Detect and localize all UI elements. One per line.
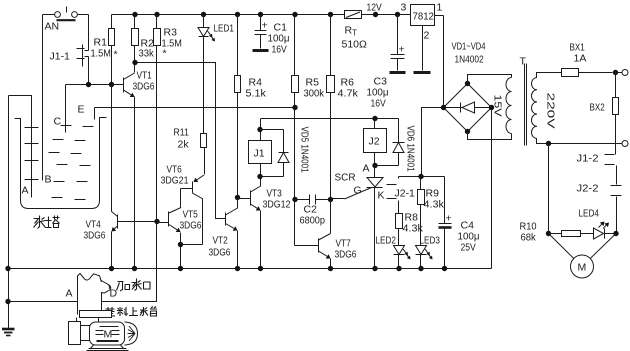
wire electrode A to pump pipe	[9, 288, 78, 302]
pump flange	[77, 311, 112, 323]
wire C-electrode net (y=84)	[66, 82, 124, 87]
electrode E	[78, 104, 95, 120]
fuse BX1 1A	[562, 42, 613, 77]
svg-text:12V: 12V	[367, 2, 382, 14]
svg-text:3DG6: 3DG6	[180, 220, 202, 232]
svg-text:16V: 16V	[272, 44, 287, 56]
node E-wire / R5	[292, 105, 297, 110]
secondary winding 15V	[468, 75, 512, 140]
diode VD5 1N4001 (flyback for J1)	[261, 127, 311, 177]
svg-text:*: *	[114, 49, 118, 61]
svg-text:LED4: LED4	[579, 208, 600, 220]
wire relay supply (y=118)	[261, 118, 399, 120]
svg-text:VT2: VT2	[213, 235, 228, 247]
resistor R9 4.3k	[418, 177, 445, 211]
fuse BX2	[590, 73, 619, 155]
svg-text:J1: J1	[254, 148, 265, 160]
resistor R6 4.7k	[327, 12, 359, 233]
svg-text:7812: 7812	[413, 11, 435, 23]
svg-text:M: M	[578, 262, 587, 274]
svg-text:3DG21: 3DG21	[161, 175, 189, 187]
svg-text:2k: 2k	[178, 139, 190, 151]
LED LED1	[198, 12, 234, 134]
capacitor C3 100u 16V	[367, 12, 406, 110]
wire E-electrode net (y=107)	[95, 107, 295, 109]
relay coil J2	[364, 116, 387, 166]
svg-text:3: 3	[401, 2, 407, 14]
LED LED2	[376, 229, 411, 269]
resistor RT 510ohm (in rail)	[342, 11, 368, 51]
resistor R10 68k	[520, 221, 581, 244]
relay contact J1-1	[50, 15, 89, 85]
svg-text:G: G	[354, 185, 362, 197]
svg-text:3DG12: 3DG12	[263, 199, 291, 211]
svg-text:3DG6: 3DG6	[335, 249, 357, 261]
resistor R1 1.5M	[91, 15, 118, 85]
LED LED3	[416, 205, 441, 269]
label jiashuikou (filling port)	[117, 279, 151, 292]
svg-text:LED1: LED1	[214, 23, 235, 35]
svg-text:B: B	[45, 174, 52, 186]
node A (SCR anode)	[363, 163, 378, 175]
svg-text:15V: 15V	[492, 95, 504, 117]
svg-text:4.3k: 4.3k	[424, 199, 445, 211]
label suliao shangshuiguan (plastic pipe)	[105, 307, 157, 317]
transistor VT4 3DG6	[84, 85, 157, 269]
wire +12V top rail	[112, 14, 345, 16]
svg-text:K: K	[378, 190, 385, 202]
relay coil J1	[249, 119, 272, 180]
svg-text:16V: 16V	[371, 98, 386, 110]
svg-text:6800p: 6800p	[300, 215, 326, 227]
svg-text:1.5M: 1.5M	[91, 48, 111, 60]
pump body	[69, 322, 125, 346]
svg-text:AN: AN	[45, 21, 60, 33]
svg-text:E: E	[78, 104, 85, 116]
terminal (mains L)	[613, 70, 628, 76]
wire motor branch left	[548, 144, 550, 234]
resistor R5 300k	[292, 12, 325, 246]
svg-text:LED2: LED2	[376, 235, 397, 247]
transistor VT7 3DG6	[295, 200, 357, 269]
pump base	[87, 345, 129, 351]
svg-text:33k: 33k	[139, 48, 155, 60]
relay contact J2-1	[387, 177, 416, 214]
wire VT1 collector to VT2 base	[135, 63, 226, 219]
capacitor C1 100u 16V	[253, 12, 290, 56]
svg-text:*: *	[163, 48, 167, 60]
svg-text:J2: J2	[369, 136, 380, 148]
wire mains N (y=143)	[546, 141, 628, 147]
svg-text:VD5 1N4001: VD5 1N4001	[299, 127, 311, 173]
svg-text:+: +	[399, 44, 405, 56]
svg-text:3DG6: 3DG6	[209, 247, 231, 259]
node VT3 base / R4 bottom	[235, 195, 240, 200]
svg-text:A: A	[66, 288, 73, 300]
svg-text:25V: 25V	[461, 242, 476, 254]
electrode C	[54, 85, 66, 133]
svg-text:3DG6: 3DG6	[84, 230, 106, 242]
wire B-probe riser (AN left to tank B electrode)	[42, 15, 44, 181]
node D/base junction	[154, 219, 159, 224]
svg-text:1: 1	[437, 2, 443, 14]
svg-text:2: 2	[424, 30, 430, 42]
water tank (shuita)	[15, 118, 107, 209]
svg-text:J1-1: J1-1	[50, 51, 71, 63]
primary winding 220V	[532, 73, 562, 144]
svg-text:J2-2: J2-2	[577, 183, 599, 195]
svg-text:R11: R11	[174, 127, 189, 139]
transistor VT5 3DG6	[157, 208, 202, 269]
svg-text:300k: 300k	[304, 88, 325, 100]
transistor VT2 3DG6	[209, 198, 238, 269]
svg-text:+: +	[446, 213, 452, 225]
transistor VT1 3DG6	[112, 60, 155, 269]
svg-text:A: A	[363, 163, 370, 175]
svg-text:VD1~VD4: VD1~VD4	[452, 41, 486, 53]
transistor VT3 3DG12	[238, 177, 291, 269]
label shuita (water tower)	[34, 216, 60, 229]
svg-text:J2-1: J2-1	[395, 188, 416, 200]
svg-text:D: D	[110, 288, 118, 300]
svg-text:M: M	[104, 329, 113, 341]
svg-text:VD6 1N4001: VD6 1N4001	[405, 126, 417, 172]
svg-text:68k: 68k	[521, 232, 537, 244]
svg-text:A: A	[22, 185, 29, 197]
transistor VT6 3DG21	[161, 148, 205, 245]
regulator 7812	[401, 2, 444, 108]
node 12V	[367, 2, 382, 18]
relay contact J2-2	[577, 183, 622, 234]
svg-text:510Ω: 510Ω	[342, 39, 368, 51]
pushbutton AN	[43, 7, 89, 33]
LED LED4	[579, 208, 619, 240]
svg-text:BX2: BX2	[590, 102, 605, 114]
diode VD6 1N4001 (flyback for J2)	[375, 119, 417, 172]
svg-text:220V: 220V	[545, 93, 557, 129]
resistor R8 4.3k	[396, 212, 424, 235]
svg-text:4.7k: 4.7k	[338, 88, 359, 100]
pump fan cover	[125, 322, 138, 345]
svg-text:J1-2: J1-2	[577, 153, 599, 165]
svg-text:3DG6: 3DG6	[133, 81, 155, 93]
svg-text:1N4002: 1N4002	[455, 54, 484, 66]
capacitor C4 100u 25V	[439, 177, 480, 269]
electrode A (with depth ticks)	[9, 96, 39, 198]
bridge rectifier VD1~VD4 1N4002	[441, 41, 494, 135]
wire bridge DC+ feed	[399, 108, 445, 180]
motor M	[549, 234, 617, 279]
wire electrode D riser	[102, 222, 157, 302]
capacitor C2 6800p	[292, 195, 333, 227]
resistor R3 1.5M	[154, 12, 182, 222]
water level dashes	[49, 126, 94, 200]
wire ground bus (y=268)	[9, 266, 492, 271]
svg-text:SCR: SCR	[335, 172, 356, 184]
svg-text:T: T	[520, 56, 527, 68]
wire left common riser	[5, 96, 10, 329]
resistor R11 2k	[174, 127, 207, 151]
ground	[2, 329, 15, 336]
svg-text:1A: 1A	[574, 53, 587, 65]
svg-text:+: +	[262, 20, 268, 32]
svg-text:5.1k: 5.1k	[246, 88, 267, 100]
svg-text:LED3: LED3	[420, 235, 441, 247]
svg-text:C: C	[54, 116, 62, 128]
relay contact J1-2	[577, 153, 617, 185]
funnel (water inlet) with spout D	[78, 274, 118, 315]
transformer T	[520, 56, 527, 146]
thyristor SCR	[331, 166, 385, 269]
resistor R4 5.1k	[235, 12, 267, 198]
wire bridge minus to ground bus	[491, 108, 493, 269]
resistor R2 33k	[132, 12, 155, 63]
